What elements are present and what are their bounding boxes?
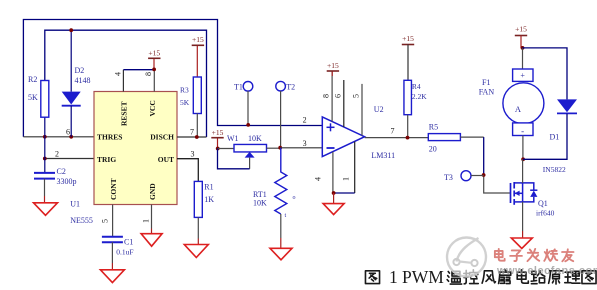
svg-text:NE555: NE555 — [70, 216, 93, 225]
svg-text:D2: D2 — [75, 66, 85, 75]
svg-text:5K: 5K — [28, 93, 38, 102]
svg-text:+15: +15 — [148, 48, 160, 57]
svg-text:3: 3 — [303, 139, 307, 148]
svg-text:IN5822: IN5822 — [543, 165, 566, 174]
svg-text:+15: +15 — [327, 61, 339, 70]
svg-text:R3: R3 — [180, 86, 189, 95]
svg-text:0.1uF: 0.1uF — [116, 248, 133, 257]
svg-text:7: 7 — [391, 127, 395, 136]
svg-text:+15: +15 — [192, 35, 204, 44]
svg-text:-: - — [521, 126, 524, 136]
svg-text:1: 1 — [389, 267, 398, 287]
svg-text:PWM: PWM — [402, 267, 444, 287]
svg-text:10K: 10K — [248, 134, 262, 143]
svg-text:10K: 10K — [253, 199, 267, 208]
svg-text:T1: T1 — [234, 83, 243, 92]
svg-text:5K: 5K — [180, 98, 190, 107]
svg-text:DISCH: DISCH — [150, 133, 174, 142]
svg-text:RESET: RESET — [120, 101, 129, 126]
svg-text:6: 6 — [334, 94, 343, 98]
svg-text:irf640: irf640 — [536, 209, 555, 218]
svg-text:4148: 4148 — [75, 76, 91, 85]
svg-text:A: A — [515, 104, 522, 114]
svg-text:VCC: VCC — [148, 100, 157, 116]
svg-text:W1: W1 — [227, 134, 239, 143]
svg-text:FAN: FAN — [479, 87, 495, 96]
svg-text:2.2K: 2.2K — [412, 92, 427, 101]
svg-text:F1: F1 — [482, 78, 490, 87]
svg-text:T2: T2 — [286, 83, 295, 92]
svg-text:U2: U2 — [374, 105, 384, 114]
svg-text:6: 6 — [66, 128, 70, 137]
svg-text:4: 4 — [114, 72, 123, 76]
svg-text:THRES: THRES — [97, 133, 122, 142]
svg-text:LM311: LM311 — [371, 151, 395, 160]
svg-text:OUT: OUT — [158, 155, 174, 164]
svg-text:C1: C1 — [124, 238, 133, 247]
svg-text:1K: 1K — [204, 195, 214, 204]
svg-text:1: 1 — [142, 219, 151, 223]
svg-text:R4: R4 — [412, 82, 421, 91]
svg-text:7: 7 — [190, 128, 194, 137]
svg-text:R2: R2 — [28, 75, 37, 84]
svg-text:+15: +15 — [212, 128, 224, 137]
svg-text:D1: D1 — [550, 132, 560, 141]
svg-text:8: 8 — [144, 72, 153, 76]
svg-text:T3: T3 — [444, 173, 453, 182]
svg-text:GND: GND — [148, 183, 157, 200]
svg-text:TRIG: TRIG — [97, 155, 116, 164]
svg-text:2: 2 — [55, 150, 59, 159]
svg-text:1: 1 — [342, 177, 351, 181]
svg-text:8: 8 — [322, 94, 331, 98]
svg-text:Q1: Q1 — [538, 199, 548, 208]
svg-text:+15: +15 — [515, 25, 527, 34]
svg-text:R5: R5 — [429, 123, 438, 132]
svg-text:www.elecfans.com: www.elecfans.com — [496, 265, 597, 277]
svg-text:+: + — [520, 71, 525, 80]
svg-text:3: 3 — [191, 150, 195, 159]
svg-text:5: 5 — [101, 219, 110, 223]
svg-text:4: 4 — [314, 177, 323, 181]
svg-text:U1: U1 — [70, 200, 80, 209]
svg-text:C2: C2 — [57, 167, 66, 176]
svg-text:+15: +15 — [402, 34, 414, 43]
svg-text:2: 2 — [303, 116, 307, 125]
svg-text:R1: R1 — [204, 183, 213, 192]
svg-text:5: 5 — [352, 94, 361, 98]
svg-text:3300p: 3300p — [57, 177, 77, 186]
svg-text:CONT: CONT — [109, 178, 118, 200]
svg-text:o: o — [293, 195, 296, 201]
svg-text:20: 20 — [429, 145, 437, 154]
